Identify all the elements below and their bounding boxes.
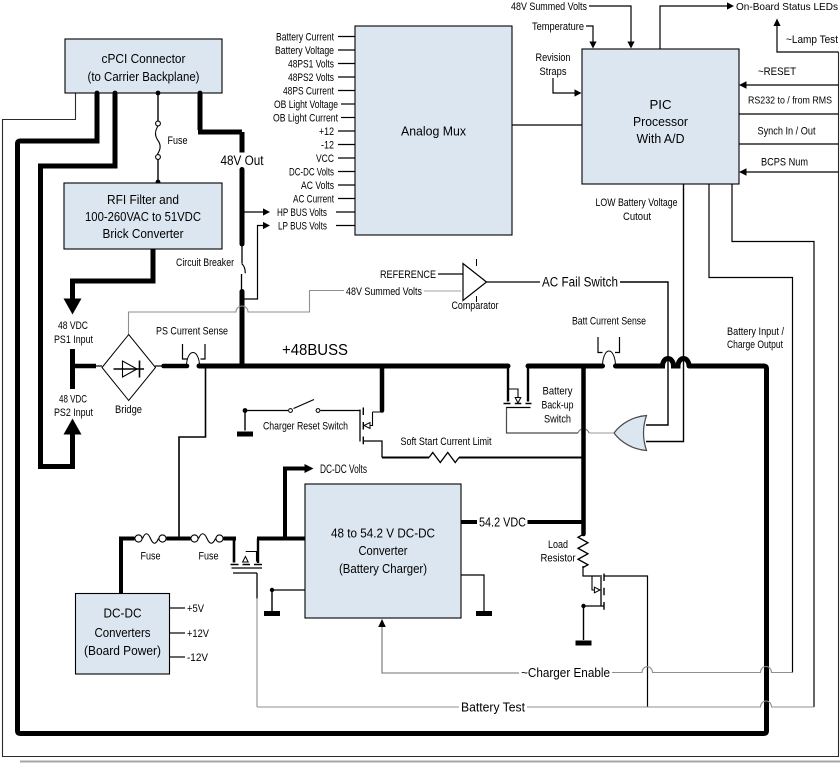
svg-text:DC-DC Volts: DC-DC Volts — [320, 464, 367, 476]
ground charger right — [461, 575, 492, 616]
wire bridge to bus — [155, 365, 164, 367]
fuse F3 — [191, 534, 223, 563]
wire lamp test — [777, 24, 839, 52]
svg-text:(to Carrier Backplane): (to Carrier Backplane) — [88, 69, 200, 84]
wire reference to comparator — [438, 273, 463, 275]
wire bus to Q1 drain — [380, 366, 385, 411]
fuse F2 — [135, 534, 166, 563]
svg-text:Battery Test: Battery Test — [461, 701, 526, 715]
svg-text:+12: +12 — [319, 126, 334, 138]
rectifier bridge BR1 — [102, 335, 156, 401]
svg-text:-12V: -12V — [187, 652, 209, 664]
wire ~RESET into PIC — [744, 84, 839, 86]
svg-text:Battery Current: Battery Current — [276, 32, 334, 44]
svg-text:Switch: Switch — [544, 414, 571, 426]
svg-text:OB Light Current: OB Light Current — [273, 113, 338, 125]
switch Charger Reset — [237, 400, 360, 437]
svg-text:Charge Output: Charge Output — [727, 339, 783, 351]
wire PIC pin to Battery Test riser — [732, 184, 814, 707]
ground charger left — [264, 588, 305, 616]
svg-text:(Battery Charger): (Battery Charger) — [339, 561, 427, 576]
arrow PS2 input (up) — [64, 419, 82, 435]
svg-text:Cutout: Cutout — [623, 211, 651, 223]
wire Analog Mux to PIC — [512, 124, 582, 126]
transistor Q2 battery back-up switch MOSFET — [504, 366, 532, 408]
svg-text:DC-DC: DC-DC — [104, 606, 142, 621]
svg-text:PS Current Sense: PS Current Sense — [156, 326, 228, 338]
svg-text:LOW Battery Voltage: LOW Battery Voltage — [596, 197, 678, 209]
block Analog Mux — [355, 26, 512, 235]
wire Battery Test — [257, 706, 459, 708]
wire battery line from bus to load resistor — [581, 366, 586, 534]
svg-text:48PS Current: 48PS Current — [283, 86, 334, 98]
analog mux input labels — [273, 32, 338, 233]
wire ~Charger Enable — [382, 625, 519, 674]
svg-text:-12: -12 — [321, 140, 334, 152]
svg-text:PIC: PIC — [650, 97, 672, 112]
svg-text:Fuse: Fuse — [168, 135, 188, 147]
wire 48V summed to PIC — [589, 6, 631, 43]
svg-text:HP BUS Volts: HP BUS Volts — [277, 207, 327, 219]
svg-text:Back-up: Back-up — [542, 400, 574, 412]
block RFI Filter / Brick Converter — [64, 183, 222, 249]
svg-text:48V Summed Volts: 48V Summed Volts — [511, 1, 587, 13]
svg-text:Straps: Straps — [540, 66, 567, 78]
wire 48V summed into comparator (gray) — [424, 290, 461, 292]
svg-text:Processor: Processor — [633, 114, 689, 129]
block DC-DC Battery Charger — [305, 484, 461, 618]
block DC-DC Converters (Board Power) — [76, 594, 170, 675]
decorative bottom gray line — [20, 761, 840, 763]
wire temperature to PIC — [586, 26, 593, 43]
svg-text:Converter: Converter — [359, 543, 409, 558]
svg-text:Battery Voltage: Battery Voltage — [275, 45, 334, 57]
svg-text:Bridge: Bridge — [115, 404, 142, 416]
wire fuse line down to DC-DC converters — [119, 537, 123, 594]
svg-text:PS1 Input: PS1 Input — [54, 334, 93, 346]
transistor Q1 soft-start MOSFET — [360, 408, 382, 458]
circuit breaker CB1 — [241, 244, 243, 264]
ground Q4 source — [576, 606, 592, 646]
svg-text:REFERENCE: REFERENCE — [380, 269, 436, 281]
svg-text:Comparator: Comparator — [452, 300, 499, 312]
label +5V / +12V / -12V outputs — [170, 608, 186, 657]
svg-text:LP BUS Volts: LP BUS Volts — [278, 221, 327, 233]
svg-text:With A/D: With A/D — [637, 131, 685, 146]
svg-text:48 VDC: 48 VDC — [59, 394, 87, 406]
wire RFI output to PS1 input arrow — [73, 250, 154, 300]
svg-text:RFI Filter and: RFI Filter and — [107, 192, 179, 207]
svg-text:48PS1 Volts: 48PS1 Volts — [288, 59, 334, 71]
svg-text:54.2 VDC: 54.2 VDC — [479, 515, 526, 530]
svg-text:OB Light Voltage: OB Light Voltage — [274, 99, 338, 111]
svg-text:+12V: +12V — [187, 628, 210, 640]
svg-text:Battery Input /: Battery Input / — [727, 326, 785, 338]
op-amp comparator U1 — [463, 259, 487, 302]
svg-text:AC Volts: AC Volts — [301, 180, 334, 192]
svg-text:Charger Reset Switch: Charger Reset Switch — [263, 421, 348, 433]
wire Q3 to charger box — [257, 537, 305, 541]
wire Q4 drain to battery test line — [604, 576, 648, 707]
svg-text:Resistor: Resistor — [541, 553, 576, 565]
block cPCI Connector — [65, 39, 222, 93]
svg-text:100-260VAC to 51VDC: 100-260VAC to 51VDC — [85, 209, 201, 224]
wire comparator output — [487, 281, 541, 283]
svg-text:+5V: +5V — [187, 603, 205, 615]
wire HP BUS Volts tap — [242, 211, 264, 213]
gate U2 OR (facing left) — [614, 416, 647, 451]
current sense Batt (bracket + hump) — [598, 337, 620, 366]
svg-text:48V Summed Volts: 48V Summed Volts — [346, 286, 422, 298]
wire PIC pin to OR gate input 2 — [646, 184, 684, 442]
svg-text:Analog Mux: Analog Mux — [401, 124, 466, 139]
svg-text:AC Current: AC Current — [293, 194, 334, 206]
node cPCI pin dots — [95, 91, 100, 96]
svg-text:~RESET: ~RESET — [758, 66, 796, 78]
node PS input tie bar — [70, 349, 75, 389]
svg-text:PS2 Input: PS2 Input — [54, 407, 93, 419]
svg-text:Brick Converter: Brick Converter — [103, 226, 185, 241]
svg-text:Batt Current Sense: Batt Current Sense — [572, 316, 646, 328]
svg-text:VCC: VCC — [316, 153, 334, 165]
svg-text:On-Board Status LEDs: On-Board Status LEDs — [736, 1, 838, 13]
svg-text:Battery: Battery — [543, 386, 573, 398]
svg-text:48 VDC: 48 VDC — [58, 320, 88, 332]
svg-text:Fuse: Fuse — [141, 551, 161, 563]
wire Synch row divider — [739, 143, 839, 145]
wire battery loop: +48BUSS right end down, bottom thick border, up left side into cPCI pin 1 — [18, 93, 767, 734]
svg-text:Load: Load — [548, 539, 568, 551]
label DC-DC Volts + arrow — [285, 469, 306, 539]
wire +48BUSS right segment with hops — [528, 359, 689, 366]
wire AC fail to OR gate input 1 — [620, 282, 668, 425]
svg-text:Synch In / Out: Synch In / Out — [758, 126, 816, 138]
svg-text:Circuit Breaker: Circuit Breaker — [176, 257, 234, 269]
svg-text:(Board Power): (Board Power) — [84, 643, 161, 658]
wire PIC pin to ~Charger Enable riser — [709, 184, 793, 673]
wire revision straps to PIC — [553, 78, 576, 93]
svg-text:Soft Start Current Limit: Soft Start Current Limit — [401, 436, 492, 448]
wire analog mux input ticks — [338, 37, 355, 199]
svg-text:48PS2 Volts: 48PS2 Volts — [288, 72, 334, 84]
svg-text:48V Out: 48V Out — [221, 153, 264, 168]
wire +48BUSS main segment — [199, 364, 508, 369]
wire LP BUS Volts tap — [244, 226, 264, 300]
resistor soft start current limit — [382, 453, 582, 463]
svg-text:Temperature: Temperature — [532, 21, 584, 33]
svg-text:Converters: Converters — [95, 625, 151, 640]
svg-text:cPCI Connector: cPCI Connector — [102, 51, 187, 66]
current sense PS (bracket + hump) — [183, 344, 206, 366]
svg-text:48 to 54.2 V DC-DC: 48 to 54.2 V DC-DC — [331, 526, 435, 541]
svg-text:+48BUSS: +48BUSS — [282, 342, 348, 359]
svg-text:BCPS Num: BCPS Num — [761, 157, 808, 169]
wire BCPS Num into PIC — [744, 171, 839, 173]
svg-text:RS232 to / from RMS: RS232 to / from RMS — [748, 95, 832, 107]
svg-text:DC-DC Volts: DC-DC Volts — [289, 167, 334, 179]
resistor load — [578, 534, 588, 568]
wire bus tap to fuses riser — [179, 368, 206, 539]
wire cPCI pin 2 to PS2 input arrow — [41, 93, 116, 467]
wire 48V summed tap from bridge (gray) — [129, 291, 345, 335]
svg-text:Revision: Revision — [536, 52, 571, 64]
transistor Q4 load MOSFET — [581, 566, 604, 610]
svg-text:~Lamp Test: ~Lamp Test — [786, 34, 838, 46]
wire OR output to Q2 gate (hop over battery line) — [589, 432, 614, 434]
arrow PS1 input (down) — [64, 299, 82, 315]
fuse F1 on cPCI pin 3 — [156, 93, 188, 184]
block PIC Processor With A/D — [582, 49, 739, 184]
wire fuse feed line — [121, 537, 135, 541]
svg-text:Fuse: Fuse — [199, 551, 219, 563]
svg-text:~Charger Enable: ~Charger Enable — [521, 666, 610, 680]
wire 54.2 VDC output — [461, 520, 477, 524]
wire cPCI pin 4 48V Out — [198, 93, 242, 153]
wire RS232 row divider — [739, 113, 839, 115]
svg-text:AC Fail Switch: AC Fail Switch — [542, 275, 618, 290]
transistor Q3 charger input MOSFET — [231, 539, 263, 574]
wire PIC to On-Board Status LEDs — [660, 6, 729, 49]
wire battery test riser from Q3 — [256, 573, 258, 599]
